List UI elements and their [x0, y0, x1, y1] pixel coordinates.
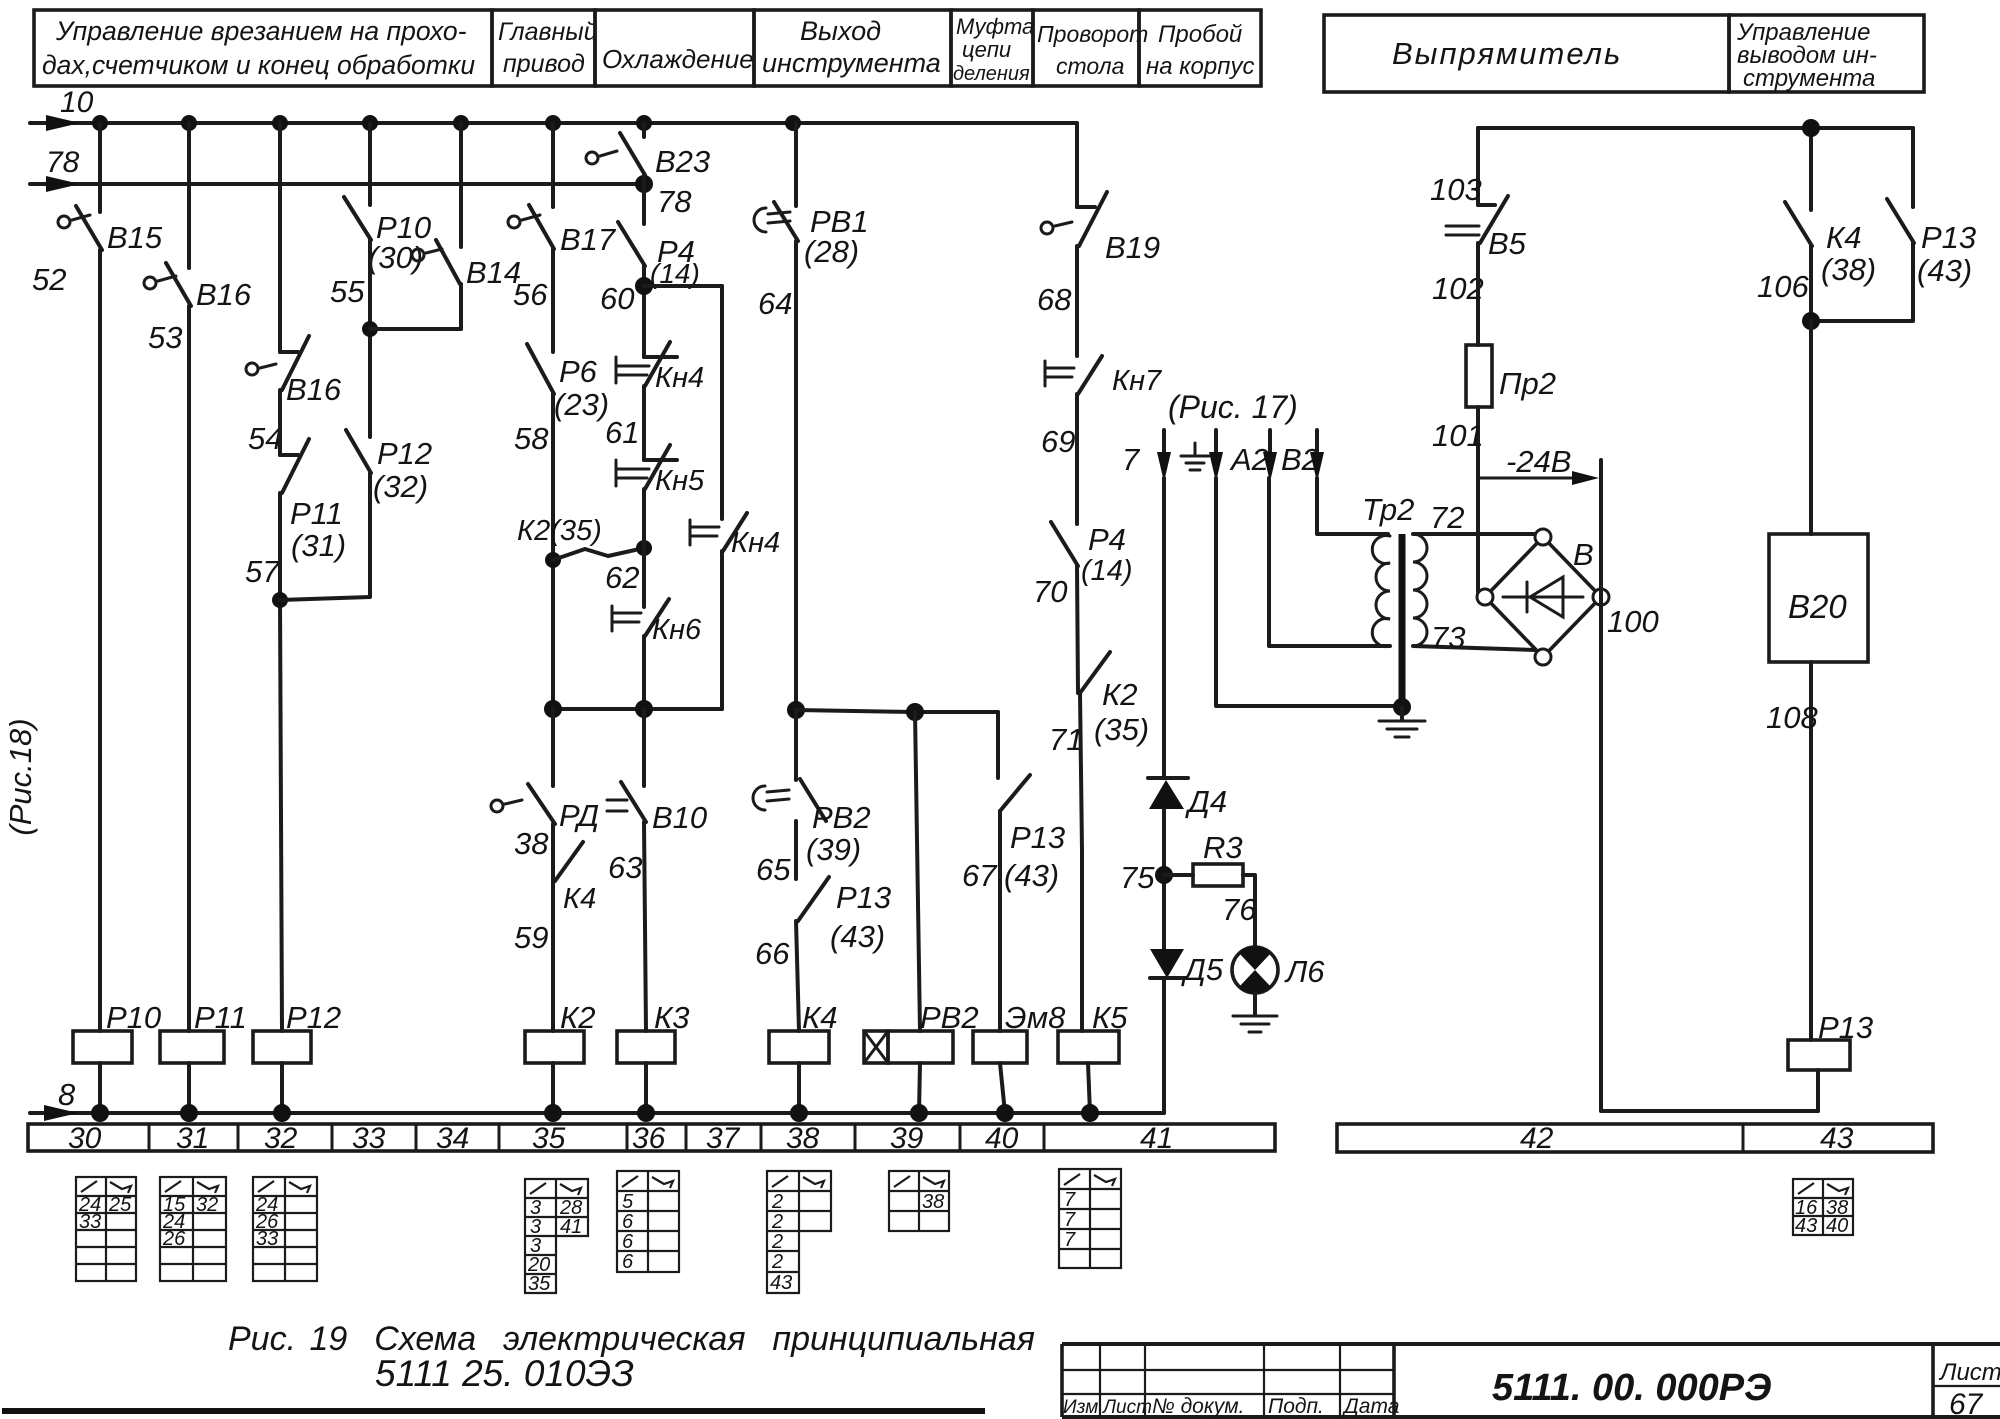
switch B5 break	[1432, 196, 1527, 306]
node core ground	[1393, 698, 1411, 716]
wire 106 mid	[1809, 246, 1813, 321]
svg-text:струмента: струмента	[1743, 65, 1875, 92]
node bus78/B23	[635, 175, 692, 219]
wire 7 vertical long	[1162, 478, 1166, 778]
wire branch 53 upper	[187, 123, 191, 268]
svg-text:(Рис. 17): (Рис. 17)	[1168, 389, 1298, 425]
contact P13 (43)	[755, 877, 891, 971]
wire A2 arrow	[1209, 430, 1269, 482]
wire horizontal to 67 branch	[796, 710, 998, 712]
caption Рис.19	[228, 1320, 1035, 1394]
contact table under 38 (L-shape)	[767, 1171, 831, 1294]
svg-text:Лист: Лист	[1101, 1397, 1152, 1418]
contact P13 (43) right	[1887, 199, 1976, 288]
node 106	[1802, 312, 1820, 330]
wire 58 down	[551, 394, 555, 709]
svg-text:6: 6	[622, 1231, 634, 1253]
svg-text:РВ2: РВ2	[812, 800, 871, 835]
wire coil P10 to bus8	[98, 1063, 102, 1113]
svg-text:62: 62	[605, 560, 639, 595]
svg-text:33: 33	[352, 1122, 386, 1155]
header box: Пробой на корпус	[1139, 10, 1261, 86]
svg-text:В5: В5	[1488, 226, 1527, 261]
wire 55 bottom to junction 57	[280, 473, 370, 600]
wire 61	[642, 386, 646, 460]
bridge inner diode	[1503, 577, 1583, 617]
switch B10	[607, 782, 707, 885]
node PB junction	[787, 701, 805, 719]
wire branch 52 upper	[98, 123, 102, 212]
svg-text:75: 75	[1120, 860, 1155, 895]
node at 644,709	[635, 700, 653, 718]
svg-text:Лист.: Лист.	[1938, 1359, 2000, 1386]
svg-text:Главный: Главный	[498, 18, 598, 46]
wire 53 down to coil P11	[187, 306, 191, 1031]
node K2(35) right	[636, 540, 652, 556]
svg-text:25: 25	[108, 1194, 132, 1216]
svg-text:100: 100	[1607, 604, 1659, 639]
svg-text:К2: К2	[1102, 677, 1138, 712]
wire coil K5 to bus8	[1088, 1063, 1090, 1113]
contact P13 (43) branch 67	[962, 775, 1065, 893]
contact K2 (35) branch 71	[1049, 652, 1149, 757]
pushbutton Kn7	[1041, 356, 1163, 459]
svg-text:69: 69	[1041, 424, 1075, 459]
transformer Tp2 core	[1399, 534, 1406, 707]
svg-text:Подп.: Подп.	[1268, 1395, 1324, 1418]
label -24B with arrow	[1480, 444, 1599, 485]
switch B14	[412, 240, 521, 290]
header box: Выход инструмента	[754, 10, 951, 86]
svg-text:стола: стола	[1056, 53, 1124, 79]
wire branch PB2 coil	[915, 712, 920, 1031]
wire node60 to parallel branch	[644, 284, 722, 288]
sheet bottom border	[2, 1408, 985, 1414]
coil P12	[253, 1000, 341, 1063]
wire coil K4 to bus8	[797, 1063, 801, 1113]
svg-text:78: 78	[657, 184, 692, 219]
svg-text:102: 102	[1432, 271, 1484, 306]
wire R3 to lamp	[1222, 875, 1257, 948]
svg-text:35: 35	[528, 1273, 551, 1295]
switch B19 break	[1037, 192, 1160, 317]
svg-text:Кн4: Кн4	[655, 362, 704, 394]
wire 65-66	[794, 821, 798, 879]
svg-text:Кн4: Кн4	[731, 527, 780, 559]
svg-text:В17: В17	[560, 222, 617, 257]
header box: Управление выводом инструмента	[1729, 15, 1924, 92]
svg-text:(38): (38)	[1821, 252, 1876, 287]
svg-text:106: 106	[1757, 269, 1809, 304]
contact K4	[514, 842, 596, 955]
svg-text:2: 2	[771, 1191, 783, 1213]
svg-text:Кн7: Кн7	[1112, 365, 1163, 397]
pushbutton Kn6	[612, 599, 702, 646]
fuse Pr2	[1466, 345, 1556, 407]
contact table under 36	[617, 1171, 679, 1273]
wire horizontal node row	[553, 707, 722, 711]
contact table under 32	[253, 1177, 317, 1281]
contact table under 43	[1793, 1179, 1853, 1237]
wire B14 lower	[459, 284, 463, 329]
wire 57 down to coil P12	[278, 493, 282, 600]
contact P4 (14) branch 70	[1033, 522, 1133, 609]
terminal band 30-41	[28, 1122, 1275, 1155]
svg-text:57: 57	[245, 554, 281, 589]
header box: Выпрямитель	[1324, 15, 1729, 92]
svg-text:41: 41	[560, 1216, 582, 1238]
svg-text:64: 64	[758, 286, 792, 321]
svg-text:В15: В15	[107, 220, 163, 255]
svg-text:(43): (43)	[830, 919, 885, 954]
contact table under 41	[1059, 1169, 1121, 1268]
svg-text:2: 2	[771, 1211, 783, 1233]
wire 54-57	[278, 390, 282, 455]
svg-text:7: 7	[1064, 1189, 1076, 1211]
header box: Управление врезанием	[34, 10, 492, 86]
ground symbol under Tp2	[1379, 707, 1425, 737]
svg-text:инструмента: инструмента	[762, 48, 941, 78]
contact K2(35) tie line	[517, 515, 644, 560]
pushbutton Kn4 NO	[690, 513, 780, 559]
wire P4 to node 60	[642, 266, 646, 357]
title block frame	[1062, 1344, 2000, 1417]
svg-text:Р10: Р10	[106, 1000, 161, 1035]
wire 63 to coil K3	[644, 822, 646, 1031]
switch B23	[586, 133, 710, 179]
wire coil P12 to bus8	[280, 1063, 284, 1113]
wire 70-71	[1077, 566, 1078, 693]
wire A2 lead to core ground	[1216, 478, 1400, 706]
svg-text:(Рис.18): (Рис.18)	[3, 718, 38, 835]
bridge rectifier B diamond	[1477, 529, 1609, 665]
coil EM8	[973, 1000, 1066, 1063]
svg-text:В20: В20	[1788, 588, 1847, 625]
bus 8	[30, 1077, 1164, 1121]
pushbutton Kn5 break	[605, 445, 705, 595]
wire coil K2 to bus8	[551, 1063, 555, 1113]
svg-text:10: 10	[60, 86, 94, 119]
wire branch 64 upper	[794, 123, 798, 206]
svg-text:№ докум.: № докум.	[1152, 1395, 1245, 1418]
svg-text:2: 2	[771, 1251, 783, 1273]
coil P11	[160, 1000, 247, 1063]
node junction 55/B14	[362, 321, 378, 337]
contact K4 (38)	[1757, 202, 1876, 304]
node bus/K4	[1802, 119, 1820, 137]
svg-text:Управление врезанием на прохо-: Управление врезанием на прохо-	[55, 16, 467, 46]
node K2(35) left	[545, 552, 561, 568]
svg-text:26: 26	[162, 1228, 186, 1250]
svg-text:Кн6: Кн6	[652, 614, 702, 646]
terminal band 42-43	[1337, 1122, 1933, 1155]
node: bus10 junction dots	[92, 115, 801, 131]
wire branch 54 upper	[278, 123, 282, 352]
svg-text:Охлаждение: Охлаждение	[602, 44, 754, 74]
wire 108	[1766, 662, 1818, 1040]
svg-text:40: 40	[1826, 1215, 1848, 1237]
svg-text:(43): (43)	[1917, 253, 1972, 288]
svg-text:Дата: Дата	[1342, 1395, 1399, 1418]
contact PB2 (39) time relay	[753, 779, 871, 887]
header box: Охлаждение	[595, 10, 754, 86]
svg-text:56: 56	[513, 277, 548, 312]
resistor R3	[1164, 830, 1243, 886]
diode D5	[1150, 949, 1224, 987]
wire third phase arrow	[1310, 430, 1324, 482]
switch RD	[491, 784, 599, 861]
svg-text:73: 73	[1431, 620, 1465, 655]
svg-text:К5: К5	[1092, 1000, 1128, 1035]
svg-text:К4: К4	[802, 1000, 838, 1035]
contact table under 39	[889, 1171, 949, 1231]
svg-text:60: 60	[600, 281, 634, 316]
svg-text:В: В	[1573, 537, 1594, 572]
svg-text:(28): (28)	[804, 234, 859, 269]
svg-text:103: 103	[1430, 172, 1482, 207]
svg-text:Изм: Изм	[1063, 1397, 1098, 1418]
contact P12 (32)	[346, 430, 432, 504]
svg-text:(30): (30)	[368, 240, 423, 275]
switch B15	[32, 206, 163, 297]
svg-text:Выход: Выход	[800, 16, 881, 46]
coil K3	[617, 1000, 690, 1063]
svg-text:(31): (31)	[291, 528, 346, 563]
svg-text:Д5: Д5	[1181, 952, 1224, 987]
svg-text:-24В: -24В	[1506, 444, 1571, 479]
svg-text:34: 34	[436, 1122, 469, 1155]
svg-text:(32): (32)	[373, 469, 428, 504]
wire RD upper	[551, 709, 555, 786]
svg-text:41: 41	[1140, 1122, 1173, 1155]
svg-text:Муфта: Муфта	[956, 14, 1034, 39]
svg-text:52: 52	[32, 262, 66, 297]
svg-text:66: 66	[755, 936, 790, 971]
transformer Tp2 secondary winding	[1413, 534, 1427, 646]
svg-text:2: 2	[771, 1231, 783, 1253]
wire 55 mid	[368, 240, 372, 437]
ground symbol near 7	[1181, 443, 1209, 470]
svg-text:привод: привод	[503, 50, 585, 78]
wire coil EM8 to bus8	[1000, 1063, 1005, 1113]
coil K5	[1058, 1000, 1128, 1063]
contact P4 (14)	[600, 222, 700, 316]
wire B2 arrow	[1263, 430, 1319, 482]
switch B17	[508, 205, 617, 312]
node 60	[635, 277, 653, 295]
svg-text:65: 65	[756, 852, 791, 887]
coil P10	[73, 1000, 161, 1063]
wire branch 60 upper	[642, 123, 646, 137]
header box: Проворот стола	[1033, 10, 1148, 86]
wire 101	[1432, 407, 1484, 592]
wire branch 55 upper	[368, 123, 372, 205]
wire branch 106 upper	[1809, 128, 1813, 210]
wire branch 67 upper	[996, 712, 1000, 778]
svg-text:35: 35	[532, 1122, 566, 1155]
coil PB2 with X box	[864, 1000, 979, 1063]
svg-text:дах,счетчиком и конец обработк: дах,счетчиком и конец обработки	[42, 50, 475, 80]
svg-text:РД: РД	[559, 798, 599, 833]
svg-text:Д4: Д4	[1185, 784, 1227, 819]
node dots bus 8	[91, 1104, 1099, 1122]
svg-text:Кн5: Кн5	[655, 465, 705, 497]
svg-text:33: 33	[79, 1211, 101, 1233]
svg-text:58: 58	[514, 421, 549, 456]
svg-text:(23): (23)	[554, 387, 609, 422]
svg-text:К2(35): К2(35)	[517, 515, 602, 547]
wire parallel branch Kn4 upper	[720, 286, 724, 519]
svg-text:108: 108	[1766, 700, 1818, 735]
contact P10 (30)	[330, 197, 431, 309]
contact P11 (31) break	[245, 439, 346, 589]
header box: Главный привод	[492, 10, 598, 86]
svg-text:В10: В10	[652, 800, 707, 835]
contact table under 31	[160, 1177, 226, 1281]
wire Kn6 to node	[642, 636, 646, 709]
svg-text:5111. 00. 000РЭ: 5111. 00. 000РЭ	[1492, 1367, 1771, 1409]
svg-text:39: 39	[890, 1122, 924, 1155]
svg-text:(14): (14)	[1081, 555, 1133, 587]
svg-text:Р13: Р13	[1818, 1010, 1873, 1045]
svg-text:59: 59	[514, 920, 548, 955]
wire 72	[1413, 500, 1537, 535]
svg-text:7: 7	[1122, 442, 1141, 477]
svg-text:33: 33	[256, 1228, 278, 1250]
svg-text:43: 43	[1820, 1122, 1854, 1155]
wire parallel branch lower	[720, 551, 724, 709]
svg-text:В16: В16	[196, 277, 252, 312]
svg-text:Р13: Р13	[1921, 220, 1976, 255]
contact P6 (23)	[514, 344, 609, 456]
svg-text:70: 70	[1033, 574, 1067, 609]
wire B14 link	[370, 327, 461, 331]
wire coil P11 to bus8	[187, 1063, 191, 1113]
block B20	[1769, 534, 1868, 662]
svg-text:42: 42	[1520, 1122, 1554, 1155]
coil P13 right	[1788, 1010, 1873, 1070]
svg-text:Р6: Р6	[559, 354, 598, 389]
ground under lamp	[1233, 993, 1277, 1032]
coil K2	[525, 1000, 596, 1063]
wire 73	[1413, 620, 1535, 655]
wire RD to K4	[551, 824, 555, 881]
wire 64 long	[794, 241, 798, 710]
wire PB2 upper	[794, 710, 798, 780]
svg-text:67: 67	[962, 858, 998, 893]
bus 10	[30, 86, 1075, 131]
svg-text:7: 7	[1064, 1209, 1076, 1231]
svg-text:6: 6	[622, 1211, 634, 1233]
svg-text:В23: В23	[655, 144, 710, 179]
svg-text:76: 76	[1222, 892, 1257, 927]
svg-text:54: 54	[248, 421, 282, 456]
coil K4	[769, 1000, 838, 1063]
svg-text:36: 36	[632, 1122, 666, 1155]
svg-text:Л6: Л6	[1284, 954, 1325, 989]
header box: Муфта цепи деления	[951, 10, 1034, 86]
wire branch B14 upper	[459, 123, 463, 247]
svg-text:Пр2: Пр2	[1499, 366, 1556, 401]
switch B16 break contact	[246, 336, 342, 456]
svg-text:А2: А2	[1229, 442, 1269, 477]
node at 553,709	[544, 700, 562, 718]
transformer Tp2 primary winding	[1372, 536, 1390, 647]
svg-text:Проворот: Проворот	[1037, 21, 1148, 47]
svg-text:31: 31	[176, 1122, 209, 1155]
svg-text:55: 55	[330, 274, 365, 309]
wire branch 68: bus10 corner down	[1075, 123, 1077, 207]
wire Kn6 node to B10	[642, 709, 646, 786]
wire 68-69	[1075, 246, 1079, 356]
svg-text:Р13: Р13	[836, 880, 891, 915]
title block row labels	[1063, 1395, 1399, 1418]
svg-text:38: 38	[922, 1191, 944, 1213]
svg-text:РВ2: РВ2	[920, 1000, 979, 1035]
wire 67 to coil EM8	[998, 811, 1002, 1031]
svg-text:Выпрямитель: Выпрямитель	[1392, 36, 1622, 71]
svg-text:Р11: Р11	[194, 1000, 247, 1035]
svg-text:5: 5	[622, 1191, 634, 1213]
node 75	[1120, 860, 1173, 895]
svg-text:Р4: Р4	[1088, 522, 1126, 557]
wire 106 to B20	[1809, 321, 1813, 534]
rectifier bus	[1478, 126, 1913, 130]
wire 100 output	[1601, 460, 1818, 1111]
wire 66 to coil K4	[796, 921, 799, 1031]
svg-text:72: 72	[1430, 500, 1464, 535]
svg-text:К3: К3	[654, 1000, 690, 1035]
diode D4	[1148, 778, 1227, 819]
wire coil PB2 to bus8	[919, 1063, 920, 1113]
node 915	[906, 703, 924, 721]
svg-text:В16: В16	[286, 372, 342, 407]
wire 71 to coil K5	[1080, 693, 1082, 1031]
wire 78-P4	[642, 175, 646, 224]
svg-text:30: 30	[68, 1122, 102, 1155]
svg-text:(35): (35)	[1094, 712, 1149, 747]
svg-text:32: 32	[196, 1194, 218, 1216]
svg-text:К4: К4	[563, 883, 596, 915]
pushbutton Kn4 break	[605, 342, 704, 450]
svg-text:деления: деления	[953, 63, 1030, 85]
svg-text:38: 38	[514, 826, 549, 861]
svg-text:6: 6	[622, 1251, 634, 1273]
wire 102	[1476, 243, 1480, 345]
wire 69-70	[1075, 394, 1079, 524]
svg-text:53: 53	[148, 320, 182, 355]
svg-text:(39): (39)	[806, 832, 861, 867]
wire P13 right lower	[1811, 243, 1913, 321]
wire D4 to node 75	[1162, 809, 1166, 949]
contact table under 30	[76, 1177, 136, 1281]
svg-text:Тр2: Тр2	[1362, 492, 1414, 527]
svg-text:5111 25. 010ЭЗ: 5111 25. 010ЭЗ	[375, 1353, 634, 1394]
lamp L6	[1232, 947, 1325, 994]
wire 62	[642, 489, 646, 607]
svg-text:78: 78	[46, 146, 80, 179]
svg-text:К4: К4	[1826, 220, 1862, 255]
wire primary top lead	[1317, 478, 1388, 534]
svg-text:40: 40	[985, 1122, 1019, 1155]
wire 7 lower	[1162, 978, 1166, 1113]
svg-text:61: 61	[605, 415, 639, 450]
svg-text:37: 37	[706, 1122, 741, 1155]
svg-text:68: 68	[1037, 282, 1072, 317]
svg-text:К2: К2	[560, 1000, 596, 1035]
svg-text:7: 7	[1064, 1229, 1076, 1251]
svg-text:38: 38	[786, 1122, 820, 1155]
